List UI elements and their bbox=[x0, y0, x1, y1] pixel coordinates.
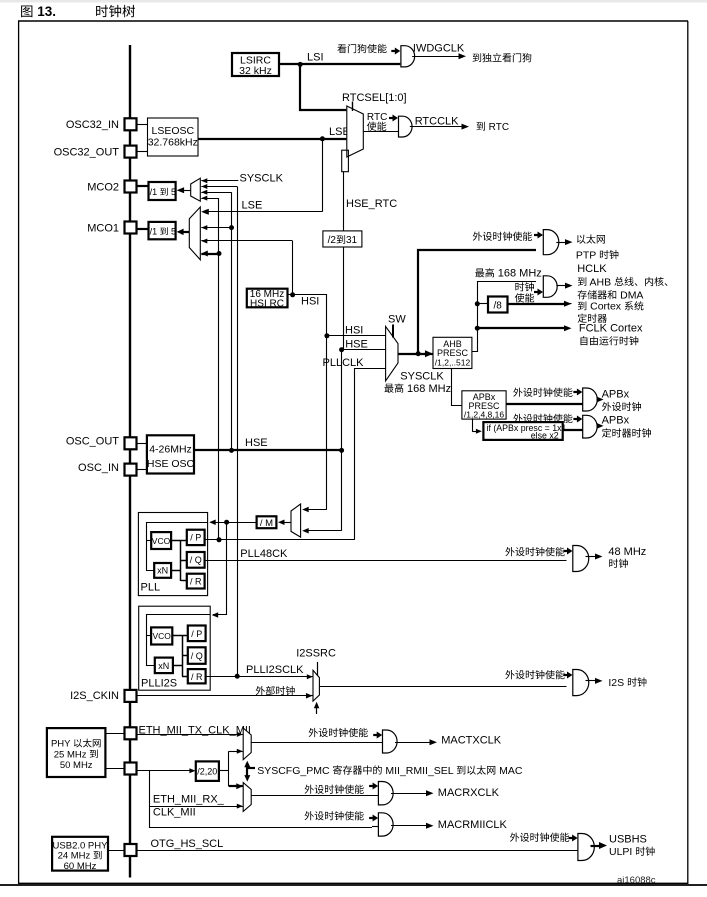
MII_RMII_SEL select arrows bbox=[246, 764, 248, 778]
label 外设时钟使能 MACRMII bbox=[305, 811, 364, 820]
node PLLCLK to MCO bbox=[217, 537, 222, 542]
svg-text:APBx: APBx bbox=[602, 389, 630, 401]
svg-text:PLLI2SCLK: PLLI2SCLK bbox=[246, 664, 304, 676]
wire HSE down to PLL input mux bbox=[341, 450, 343, 530]
wire /2,20 out branches bbox=[219, 770, 229, 772]
wire HSE to SW mux bbox=[342, 349, 386, 351]
mux MCO1 bbox=[189, 207, 200, 260]
wire PLL48CK from /Q bbox=[205, 560, 567, 562]
wire AHB out right bbox=[472, 282, 536, 352]
label 时钟使能 HCLK bbox=[515, 282, 534, 291]
wire MCO1 in LSE arrowhead bbox=[201, 209, 207, 214]
wire MACRXCLK out bbox=[391, 793, 427, 795]
svg-text:SYSCFG_PMC: SYSCFG_PMC bbox=[257, 765, 332, 777]
pin MCO1 bbox=[125, 222, 137, 234]
svg-text:PHY: PHY bbox=[51, 739, 73, 750]
wire HSE main bbox=[194, 449, 342, 451]
svg-text:Cortex: Cortex bbox=[587, 301, 624, 313]
wire LSE down to MCO1 mux bbox=[322, 139, 324, 212]
svg-text:RTC: RTC bbox=[486, 122, 509, 133]
svg-text:/1: /1 bbox=[150, 227, 160, 237]
wire into /8 bbox=[477, 303, 488, 305]
wire HSE vertical up to SW and RTC bbox=[341, 350, 343, 451]
label 自由运行时钟 bbox=[581, 336, 639, 345]
pin ETH_MII_TX_CLK bbox=[125, 727, 137, 739]
prescaler APBx PRESC box bbox=[462, 391, 506, 419]
node HSE right bbox=[339, 448, 344, 453]
svg-text:I2S_CKIN: I2S_CKIN bbox=[70, 690, 119, 702]
divider /M box bbox=[257, 516, 277, 528]
label 存储器和 DMA bbox=[578, 290, 617, 299]
enable arrow MACTX bbox=[373, 734, 378, 736]
bottom page rule bbox=[0, 884, 707, 886]
svg-text:APBx: APBx bbox=[602, 415, 630, 427]
wire AHB down to APBx PRESC bbox=[452, 369, 462, 406]
svg-text:HSE_RTC: HSE_RTC bbox=[346, 198, 397, 210]
svg-text:OTG_HS_SCL: OTG_HS_SCL bbox=[151, 838, 224, 850]
wire SYSCLK up to PTP gate bbox=[418, 250, 536, 354]
svg-text:/ R: / R bbox=[190, 577, 202, 587]
pin OSC_OUT bbox=[125, 437, 137, 449]
svg-text:MCO1: MCO1 bbox=[87, 223, 119, 235]
mux ETH TX bbox=[243, 728, 251, 760]
PLLI2S block outline bbox=[139, 606, 211, 690]
PLL block outline bbox=[138, 513, 207, 596]
wire I2S out bbox=[586, 680, 597, 682]
wire MCO1 stub bbox=[137, 228, 149, 230]
wire ETH RX pin to /2,20 bbox=[137, 770, 195, 772]
mux MCO2 bbox=[191, 178, 201, 201]
svg-text:xN: xN bbox=[158, 661, 169, 671]
gate 48MHz clock enable bbox=[573, 546, 589, 572]
svg-text:MII_RMII_SEL: MII_RMII_SEL bbox=[382, 765, 456, 777]
wire MCO2 in PLLI2S bbox=[201, 186, 237, 188]
label 以太网 bbox=[577, 234, 605, 243]
mux RTCSEL bottom step bbox=[342, 150, 349, 172]
wire OTG_HS line bbox=[137, 850, 578, 852]
svg-text:48 MHz: 48 MHz bbox=[608, 546, 646, 558]
svg-text:50 MHz: 50 MHz bbox=[60, 760, 93, 771]
enable arrow I2S bbox=[564, 674, 569, 676]
label 最高 168 MHz under SW bbox=[385, 384, 404, 393]
svg-text:SYSCLK: SYSCLK bbox=[240, 172, 284, 184]
PLL VCO input stub bbox=[146, 540, 151, 542]
gate MACTXCLK enable bbox=[383, 730, 398, 753]
svg-text:PLLI2S: PLLI2S bbox=[141, 677, 177, 689]
PLLI2S VCO box bbox=[151, 627, 172, 644]
PLLI2S VCO input stub bbox=[146, 635, 151, 637]
node /8 branch bbox=[475, 301, 480, 306]
label 外设时钟使能 48M bbox=[505, 547, 564, 556]
gate Ethernet PTP clock enable bbox=[543, 230, 559, 255]
wire OSC32_IN stub bbox=[137, 124, 148, 126]
PLLI2S xN box bbox=[155, 658, 173, 674]
svg-text:ETH_MII_RX_: ETH_MII_RX_ bbox=[153, 794, 225, 806]
node HSE to MCO1 bbox=[229, 225, 234, 230]
wire MACTXCLK out bbox=[395, 742, 431, 744]
label 定时器 bbox=[578, 314, 607, 323]
svg-text:xN: xN bbox=[157, 566, 168, 576]
svg-text:/1: /1 bbox=[150, 187, 160, 197]
svg-text:25 MHz: 25 MHz bbox=[54, 749, 89, 760]
svg-text:HSI RC: HSI RC bbox=[250, 298, 284, 309]
svg-text:5: 5 bbox=[168, 187, 176, 197]
node PLL to MCO1 bbox=[217, 251, 222, 256]
svg-text:CLK_MII: CLK_MII bbox=[153, 806, 196, 818]
divider /2到31 box bbox=[323, 231, 362, 247]
oscillator LSIRC box bbox=[232, 53, 279, 76]
svg-text:USBHS: USBHS bbox=[609, 833, 647, 845]
svg-text:60 MHz: 60 MHz bbox=[64, 861, 97, 872]
svg-text:IWDGCLK: IWDGCLK bbox=[413, 43, 465, 55]
node FCLK branch bbox=[475, 326, 480, 331]
mux SW system clock bbox=[386, 326, 398, 381]
mux PLL source bbox=[291, 504, 301, 537]
svg-text:HCLK: HCLK bbox=[577, 263, 607, 275]
label 外设时钟使能 PTP bbox=[473, 232, 532, 241]
svg-text:I2S: I2S bbox=[608, 677, 627, 689]
divider /1到5 box MCO2 bbox=[149, 182, 176, 200]
wire PHY to TX pin bbox=[105, 733, 124, 735]
wire MCO1 mux out bbox=[183, 231, 190, 233]
wire MCO2 in PLL bbox=[201, 198, 219, 200]
label 外设时钟使能 APB2 bbox=[513, 414, 572, 423]
svg-text:MACRMIICLK: MACRMIICLK bbox=[438, 819, 508, 831]
wire to RMII mux input1 bbox=[229, 785, 236, 787]
wire PLLCLK from /P bbox=[205, 539, 355, 541]
label 到 Cortex 系统 bbox=[578, 301, 587, 310]
svg-text:4-26MHz: 4-26MHz bbox=[149, 444, 192, 456]
enable arrow APB1 bbox=[573, 391, 578, 393]
wire USBHS out bbox=[591, 845, 601, 847]
enable arrow PTP bbox=[534, 234, 539, 236]
mux ETH RMII bbox=[243, 783, 251, 812]
enable arrow 48M bbox=[564, 550, 569, 552]
svg-text:MACTXCLK: MACTXCLK bbox=[441, 735, 502, 747]
wire mux to /M box bbox=[284, 522, 292, 524]
svg-text:HSE: HSE bbox=[245, 437, 268, 449]
svg-text:FCLK Cortex: FCLK Cortex bbox=[579, 322, 643, 334]
wire PLLCLK vertical to MCO muxes bbox=[218, 198, 220, 540]
gate MACRXCLK enable bbox=[378, 782, 393, 805]
wire TX mux out bbox=[251, 742, 382, 744]
svg-text:LSEOSC: LSEOSC bbox=[151, 125, 194, 137]
svg-text:PTP: PTP bbox=[576, 249, 599, 261]
enable arrow MACRX bbox=[369, 785, 374, 787]
wire ETH_MII_RX line bbox=[150, 806, 238, 808]
wire /M out to PLL bbox=[211, 522, 257, 524]
enable arrow USB bbox=[569, 837, 574, 839]
label 外设时钟使能 MACRX bbox=[305, 785, 364, 794]
svg-text:SW: SW bbox=[388, 313, 406, 325]
svg-text:PLLCLK: PLLCLK bbox=[323, 357, 365, 369]
svg-text:RTCCLK: RTCCLK bbox=[415, 116, 459, 128]
PLLI2S /R box bbox=[188, 669, 206, 683]
svg-text:PLL: PLL bbox=[141, 582, 161, 594]
PLL /R box bbox=[187, 574, 205, 589]
PLL xN feedback wire bbox=[171, 570, 181, 572]
svg-text:MCO2: MCO2 bbox=[87, 182, 119, 194]
gate APBx peripheral clock enable bbox=[583, 388, 598, 411]
wire HSE vertical to MCO muxes bbox=[231, 192, 233, 450]
wire HSI down to PLL input mux bbox=[326, 336, 328, 510]
svg-text:/8: /8 bbox=[494, 300, 503, 311]
PLLI2S /P box bbox=[188, 626, 206, 642]
PLLI2S /Q box bbox=[188, 647, 206, 664]
svg-text:HSI: HSI bbox=[345, 325, 363, 337]
divider /1到5 box MCO1 bbox=[149, 222, 176, 239]
SW select line bbox=[392, 325, 394, 338]
pin OSC32_IN bbox=[125, 118, 137, 130]
svg-text:OSC32_IN: OSC32_IN bbox=[66, 119, 119, 131]
pin OSC32_OUT bbox=[125, 146, 137, 158]
node HSE to MCO bbox=[229, 448, 234, 453]
svg-text:OSC_IN: OSC_IN bbox=[78, 462, 119, 474]
pin OSC_IN bbox=[125, 464, 137, 476]
svg-text:5: 5 bbox=[168, 227, 176, 237]
svg-text:PLL48CK: PLL48CK bbox=[240, 548, 288, 560]
wire APBx PRESC out to gate bbox=[506, 403, 583, 405]
svg-text:32.768kHz: 32.768kHz bbox=[148, 137, 198, 149]
node HSI junction bbox=[290, 292, 295, 297]
enable arrow HCLK bbox=[534, 291, 539, 293]
node /M branch to PLLI2S bbox=[224, 520, 229, 525]
label 外设时钟使能 I2S bbox=[505, 670, 564, 679]
wire HSI out bbox=[288, 295, 327, 336]
wire to TX mux input2 bbox=[229, 751, 237, 753]
wire PLLCLK to SW mux bbox=[355, 369, 386, 540]
PHY ethernet box bbox=[47, 728, 106, 777]
PLL /Q box bbox=[187, 552, 205, 568]
node SYSCLK branch bbox=[416, 351, 421, 356]
wire PLLI2S vertical to MCO2 bbox=[237, 187, 239, 677]
svg-text:SYSCLK: SYSCLK bbox=[400, 371, 444, 383]
svg-text:AHB: AHB bbox=[587, 276, 614, 288]
svg-text:VCO: VCO bbox=[152, 536, 171, 546]
divider /8 box bbox=[488, 297, 508, 313]
enable arrow APB2 bbox=[573, 418, 578, 420]
wire HSE_RTC vertical bbox=[343, 172, 345, 231]
wire MCO2 in SYSCLK bbox=[201, 180, 238, 182]
title rule bbox=[18, 20, 688, 22]
svg-text:13.: 13. bbox=[34, 4, 57, 19]
wire I2S mux out to gate bbox=[319, 686, 566, 688]
svg-text:31: 31 bbox=[346, 235, 358, 246]
oscillator HSI RC box bbox=[247, 289, 288, 308]
svg-text:/1,2,..512: /1,2,..512 bbox=[435, 357, 471, 367]
label 到 AHB 总线、内核、 bbox=[578, 277, 587, 286]
node LSI junction bbox=[298, 62, 303, 67]
wire MCO2 in HSE bbox=[201, 192, 231, 194]
wire OSC_OUT stub bbox=[137, 443, 147, 445]
wire RMII ref into gate bbox=[372, 826, 378, 828]
label 定时器时钟 bbox=[602, 428, 651, 437]
enable arrow MACRMII bbox=[369, 817, 374, 819]
pin MCO2 bbox=[125, 181, 137, 193]
wire MCO1 in HSE bbox=[201, 227, 231, 229]
wire IWDGCLK out bbox=[412, 56, 459, 58]
wire LSI down to RTCSEL mux bbox=[300, 64, 346, 110]
PLL input loop wire bbox=[147, 523, 208, 571]
PLLI2S input loop wire bbox=[147, 615, 211, 666]
wire APBx PRESC down to if box bbox=[472, 419, 474, 431]
wire MCO2 mux out bbox=[183, 190, 191, 192]
wire /M down to PLLI2S bbox=[213, 522, 227, 614]
label 外设时钟使能 MACTX bbox=[309, 728, 368, 737]
label 到独立看门狗 bbox=[473, 53, 532, 62]
label 外部时钟 bbox=[256, 686, 295, 695]
wire FCLK out bbox=[477, 327, 565, 329]
svg-text:168 MHz: 168 MHz bbox=[495, 268, 542, 280]
svg-text:else x2: else x2 bbox=[531, 431, 559, 441]
gate RTC clock enable bbox=[399, 116, 413, 137]
svg-text:RTC: RTC bbox=[367, 112, 387, 123]
svg-text:/ P: / P bbox=[190, 533, 201, 543]
svg-text:MAC: MAC bbox=[496, 765, 523, 777]
wire APBx timer out bbox=[597, 425, 598, 427]
wire MCO1 in PLL bbox=[201, 253, 219, 255]
svg-text:/ M: / M bbox=[260, 518, 273, 529]
gate APBx timer clock enable bbox=[583, 415, 597, 438]
svg-text:/ Q: / Q bbox=[190, 555, 202, 565]
node HSE at SW bbox=[339, 347, 344, 352]
I2SSRC select line bbox=[317, 662, 319, 676]
wire HSE_RTC below box to HSE line bbox=[343, 247, 345, 350]
wire RTCCLK out bbox=[410, 126, 463, 128]
wire HSI up to MCO1 bbox=[292, 241, 294, 295]
svg-text:RTCSEL[1:0]: RTCSEL[1:0] bbox=[342, 92, 407, 104]
svg-text:/ R: / R bbox=[191, 672, 203, 682]
label 到 RTC bbox=[477, 122, 486, 131]
gate HCLK clock enable bbox=[543, 276, 557, 298]
wire OSC_IN stub bbox=[137, 469, 147, 471]
svg-text:HSE: HSE bbox=[345, 339, 368, 351]
wire PLLI2SCLK from /R bbox=[206, 676, 313, 678]
condition box if APBx presc bbox=[483, 422, 562, 440]
oscillator LSEOSC box bbox=[148, 118, 199, 156]
gate MACRMIICLK enable bbox=[378, 813, 393, 836]
gate USBHS ULPI enable bbox=[578, 834, 594, 861]
pin I2S_CKIN bbox=[125, 690, 137, 702]
wire RMII mux out bbox=[251, 795, 378, 797]
wire PHY to RX pin bbox=[105, 768, 124, 770]
wire SYSCLK out bbox=[398, 353, 426, 355]
label 看门狗使能 bbox=[337, 44, 386, 53]
enable arrow IWDG bbox=[391, 50, 396, 52]
node PLLI2SCLK to MCO2 bbox=[235, 674, 240, 679]
svg-text:ULPI: ULPI bbox=[609, 846, 635, 858]
svg-text:I2SSRC: I2SSRC bbox=[296, 648, 336, 660]
svg-text:32 kHz: 32 kHz bbox=[239, 65, 272, 77]
node LSE junction bbox=[320, 136, 325, 141]
svg-text:LSI: LSI bbox=[307, 52, 324, 64]
I2SSRC bottom select bbox=[316, 705, 318, 715]
wire LSI to IWDG gate bbox=[279, 63, 400, 65]
wire ETH TX to mux bbox=[137, 734, 238, 736]
wire if box out to gate bbox=[563, 429, 583, 431]
label 外设时钟 APBx bbox=[602, 402, 641, 411]
mux I2S source bbox=[313, 670, 319, 701]
enable arrow RTC bbox=[389, 117, 394, 119]
pin OTG_HS_ULPI bbox=[125, 844, 137, 856]
svg-text:HSE OSC: HSE OSC bbox=[147, 458, 195, 470]
wire HSI to SW mux bbox=[327, 335, 386, 337]
svg-text:LSE: LSE bbox=[242, 199, 263, 211]
main pin bus bbox=[129, 45, 131, 878]
svg-text:ai16088c: ai16088c bbox=[617, 875, 656, 886]
wire USB PHY stub bbox=[108, 850, 125, 852]
RTCSEL select line bbox=[352, 102, 354, 112]
mux RTCSEL bbox=[347, 106, 364, 157]
label 最高 168 MHz HCLK bbox=[475, 268, 494, 277]
label 时钟 48M bbox=[609, 559, 628, 568]
svg-text:OSC32_OUT: OSC32_OUT bbox=[54, 146, 120, 158]
wire MCO1 in HSI bbox=[201, 240, 292, 242]
PLL VCO output bus bbox=[171, 540, 187, 542]
svg-text:OSC_OUT: OSC_OUT bbox=[66, 435, 119, 447]
wire HCLK out bbox=[556, 285, 566, 287]
node HSI at SW bbox=[324, 333, 329, 338]
title 图 13. 时钟树 bbox=[21, 6, 32, 18]
label 外设时钟使能 APB1 bbox=[513, 388, 572, 397]
svg-text:168 MHz: 168 MHz bbox=[404, 383, 451, 395]
wire MCO2 stub bbox=[137, 185, 149, 187]
pin ETH_MII_RX_CLK bbox=[125, 763, 137, 775]
svg-text:/ P: / P bbox=[191, 629, 202, 639]
svg-text:HSI: HSI bbox=[301, 296, 319, 308]
wire RTCSEL mux output to gate bbox=[363, 131, 398, 133]
PLL /P box bbox=[187, 530, 205, 545]
PLLI2S VCO output bus bbox=[172, 635, 188, 637]
wire LSE to RTCSEL mux bbox=[198, 138, 346, 140]
wire 48M out bbox=[586, 556, 597, 558]
wire APBx peripheral out bbox=[597, 399, 598, 401]
wire OSC32_OUT stub bbox=[137, 151, 148, 153]
divider /2,20 box bbox=[196, 761, 219, 781]
wire I2S external clock bbox=[137, 695, 307, 697]
USB PHY box bbox=[52, 837, 108, 871]
wire PLLI2SCLK arrowhead bbox=[307, 674, 313, 679]
svg-text:/ Q: / Q bbox=[191, 651, 203, 661]
wire /8 out to Cortex timer bbox=[508, 303, 566, 305]
svg-text:/1,2,4,8,16: /1,2,4,8,16 bbox=[464, 410, 504, 420]
PLL VCO box bbox=[151, 532, 171, 549]
PLL xN box bbox=[154, 563, 171, 578]
label 外设时钟使能 USB bbox=[510, 833, 569, 842]
wire MACRMIICLK out bbox=[391, 825, 427, 827]
PLLI2S xN feedback wire bbox=[173, 665, 182, 667]
svg-text:MACRXCLK: MACRXCLK bbox=[438, 787, 500, 799]
oscillator HSE OSC box bbox=[147, 435, 194, 473]
wire PTP out bbox=[556, 242, 566, 244]
gate I2S clock enable bbox=[573, 670, 589, 696]
svg-text:/2: /2 bbox=[328, 235, 337, 246]
prescaler AHB PRESC box bbox=[433, 337, 472, 368]
svg-text:/2,20: /2,20 bbox=[197, 766, 217, 776]
svg-text:VCO: VCO bbox=[152, 631, 171, 641]
wire branch down from RX pin line bbox=[150, 771, 373, 828]
gate IWDG clock enable bbox=[401, 46, 415, 67]
